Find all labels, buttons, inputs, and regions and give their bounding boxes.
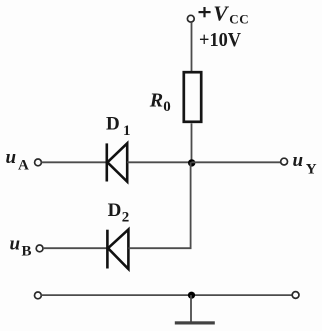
svg-text:u: u [6,147,17,168]
terminal uA [35,159,42,166]
svg-text:u: u [10,234,21,255]
svg-text:1: 1 [123,123,131,139]
ground [175,321,215,324]
junction node Y [188,159,195,166]
wire junction to ground [190,295,192,322]
svg-text:Y: Y [306,161,317,177]
junction bottom rail [188,292,195,299]
svg-text:D: D [106,113,120,134]
terminal +Vcc [187,15,194,22]
terminal uY [281,158,288,165]
wire D1 anode to node Y [127,161,191,163]
terminal uB [36,245,43,252]
svg-text:R: R [149,90,163,112]
resistor R0 [184,72,201,122]
wire bottom rail [41,294,292,296]
svg-text:A: A [18,157,29,173]
wire uB to D2 cathode [43,247,107,249]
svg-text:CC: CC [229,11,249,26]
wire node Y to uY terminal [192,161,281,163]
wire Vcc terminal to R0 [191,22,193,71]
svg-text:2: 2 [122,210,130,226]
wire R0 to node Y [191,123,193,162]
diode D1 [107,143,127,181]
svg-text:V: V [213,1,229,25]
wire uA to D1 cathode [41,161,106,163]
terminal bottom-left [35,292,42,299]
wire D2 anode to node Y (right then up) [128,162,190,248]
terminal bottom-right [292,292,299,299]
svg-text:+10V: +10V [199,29,242,51]
svg-text:u: u [293,150,304,171]
svg-text:B: B [22,244,32,260]
svg-text:0: 0 [163,99,171,115]
svg-text:D: D [108,200,122,221]
label +Vcc: plus sign [199,7,211,17]
diode D2 [107,230,128,270]
